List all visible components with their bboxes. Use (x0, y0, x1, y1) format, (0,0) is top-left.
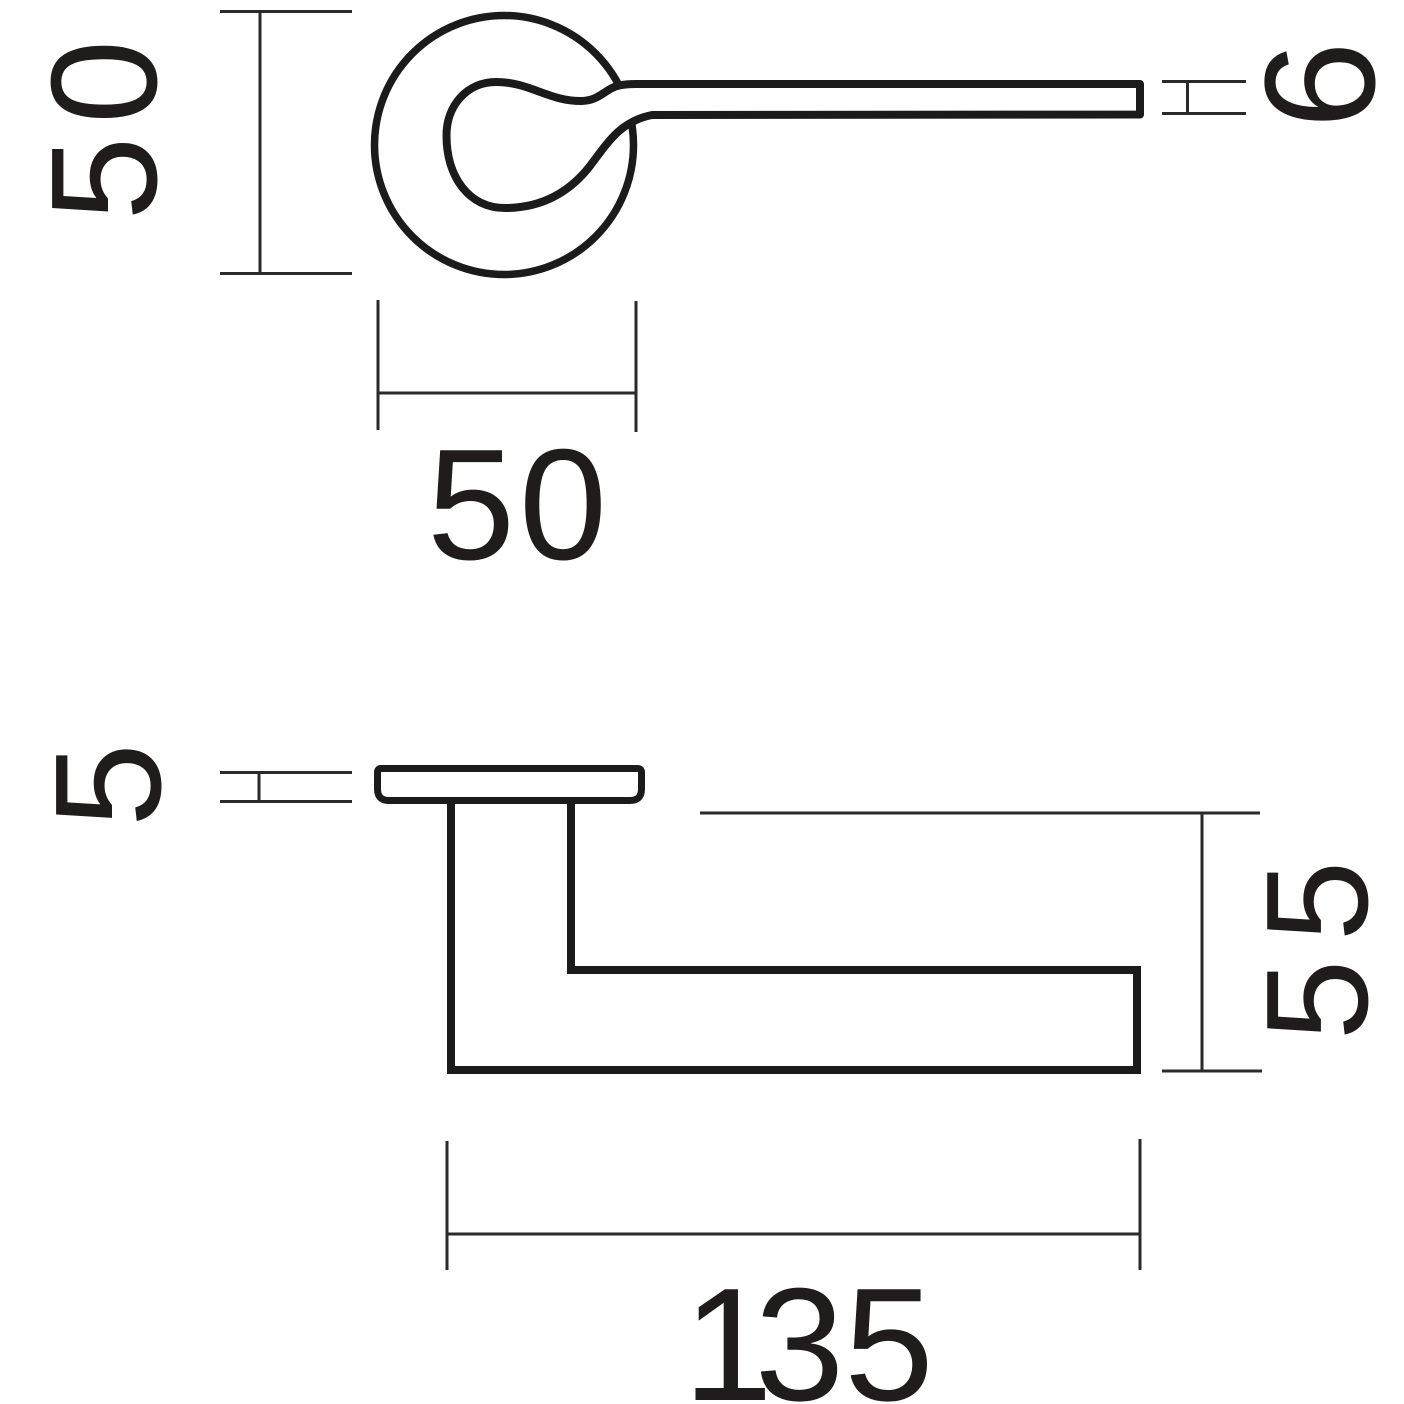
svg-text:5: 5 (23, 743, 192, 827)
svg-text:0: 0 (19, 40, 188, 124)
svg-text:6: 6 (1233, 41, 1404, 128)
svg-text:5: 5 (19, 137, 188, 221)
svg-text:3: 3 (755, 1255, 845, 1404)
svg-text:5: 5 (1236, 960, 1398, 1041)
svg-text:0: 0 (519, 417, 607, 593)
svg-text:5: 5 (1236, 861, 1398, 942)
svg-text:5: 5 (844, 1255, 934, 1404)
svg-text:5: 5 (427, 417, 515, 593)
